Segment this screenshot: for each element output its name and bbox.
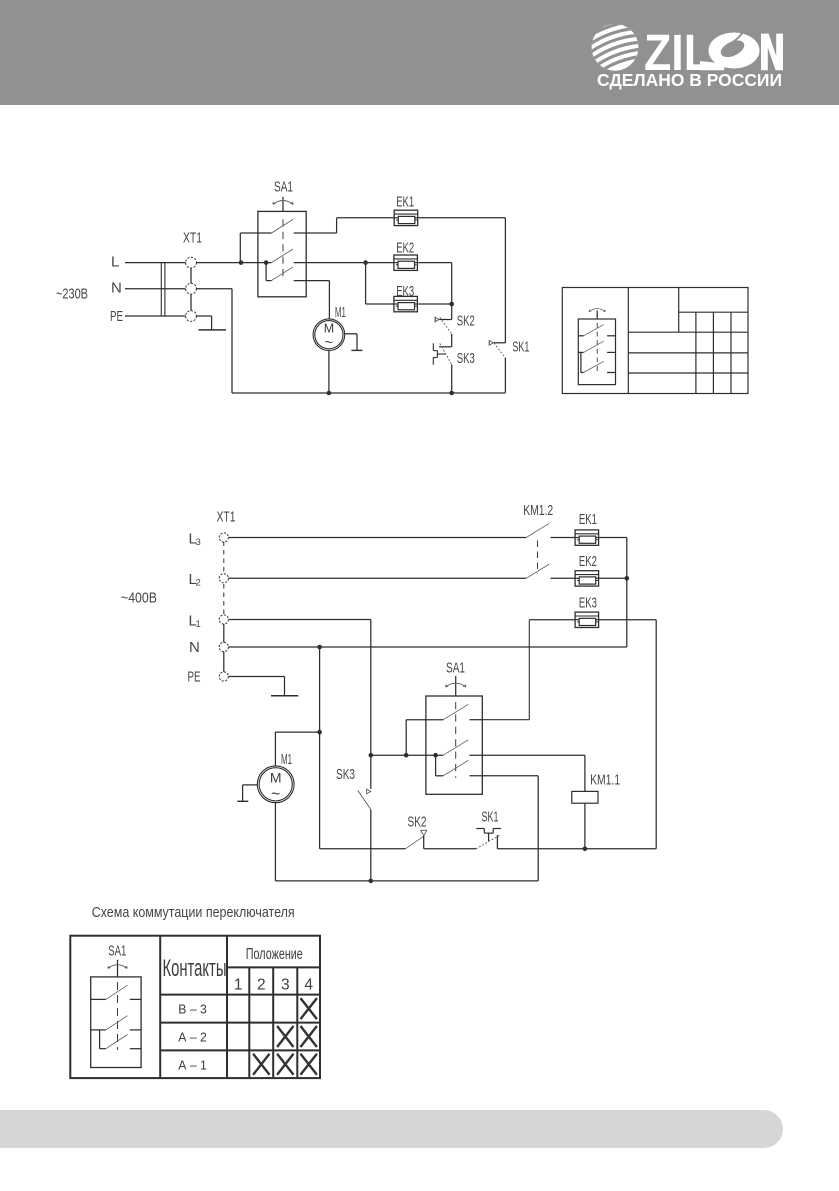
svg-text:PE: PE <box>110 308 123 325</box>
svg-text:~400В: ~400В <box>121 590 157 607</box>
svg-text:M1: M1 <box>281 751 292 768</box>
svg-text:SA1: SA1 <box>446 660 465 677</box>
svg-text:3: 3 <box>196 537 201 548</box>
svg-text:L: L <box>111 254 119 271</box>
svg-text:KM1.2: KM1.2 <box>523 502 553 519</box>
svg-text:XT1: XT1 <box>183 230 202 247</box>
svg-text:EK2: EK2 <box>579 553 597 570</box>
svg-text:SK2: SK2 <box>457 312 475 329</box>
svg-text:EK3: EK3 <box>396 283 414 300</box>
svg-text:SK2: SK2 <box>408 813 427 830</box>
svg-text:M1: M1 <box>335 304 346 321</box>
svg-text:А – 2: А – 2 <box>178 1030 207 1045</box>
svg-text:1: 1 <box>196 619 201 630</box>
svg-text:N: N <box>189 639 200 656</box>
svg-text:M: M <box>270 769 282 785</box>
svg-text:SA1: SA1 <box>274 179 293 196</box>
svg-text:SK3: SK3 <box>336 766 355 783</box>
svg-text:В – 3: В – 3 <box>178 1001 207 1016</box>
svg-text:EK1: EK1 <box>579 511 597 528</box>
svg-text:Схема коммутации переключателя: Схема коммутации переключателя <box>92 904 295 921</box>
svg-text:SK3: SK3 <box>457 350 475 367</box>
svg-text:СДЕЛАНО В РОССИИ: СДЕЛАНО В РОССИИ <box>597 70 782 90</box>
svg-text:SK1: SK1 <box>512 338 529 355</box>
svg-text:EK3: EK3 <box>579 594 597 611</box>
svg-text:EK1: EK1 <box>396 194 414 211</box>
svg-text:4: 4 <box>304 976 313 993</box>
svg-text:Контакты: Контакты <box>163 955 227 982</box>
svg-text:~: ~ <box>325 335 333 351</box>
svg-text:2: 2 <box>257 976 266 993</box>
svg-text:~: ~ <box>271 786 280 803</box>
svg-text:SA1: SA1 <box>108 942 126 959</box>
svg-text:N: N <box>111 280 122 297</box>
svg-text:Положение: Положение <box>246 946 303 963</box>
svg-text:~230В: ~230В <box>56 285 88 302</box>
svg-text:SK1: SK1 <box>482 808 499 825</box>
svg-text:KM1.1: KM1.1 <box>590 772 620 789</box>
svg-text:2: 2 <box>196 578 201 589</box>
svg-text:XT1: XT1 <box>217 508 236 525</box>
svg-text:M: M <box>324 322 334 336</box>
svg-text:PE: PE <box>188 668 201 685</box>
svg-text:А – 1: А – 1 <box>178 1057 207 1072</box>
svg-text:3: 3 <box>281 976 290 993</box>
svg-text:EK2: EK2 <box>396 240 414 257</box>
svg-text:1: 1 <box>234 976 243 993</box>
